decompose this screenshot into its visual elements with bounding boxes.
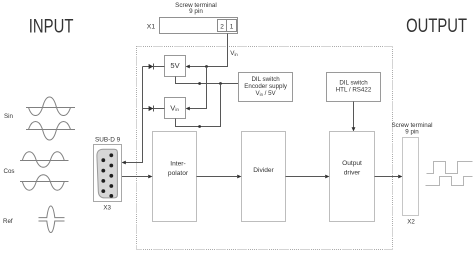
- DIL switch HTL/RS422 box: [327, 73, 381, 102]
- wire Vin output riser: [176, 84, 221, 127]
- svg-text:X2: X2: [407, 218, 415, 225]
- block Interpolator: [153, 132, 197, 222]
- svg-text:X1: X1: [147, 24, 156, 31]
- block Divider: [242, 132, 286, 222]
- svg-text:SUB-D 9: SUB-D 9: [95, 136, 121, 143]
- connector X3 SUB-D: [94, 145, 122, 202]
- arrow into Vin right: [186, 107, 190, 111]
- svg-text:Encoder supply: Encoder supply: [244, 83, 288, 90]
- svg-text:Cos: Cos: [4, 168, 15, 175]
- supply rail to SUB-D: [123, 67, 143, 163]
- wire X1 pin1 down: [187, 34, 228, 67]
- wire 5V output to DIL encoder: [176, 77, 239, 84]
- waveform sin-: [26, 129, 75, 131]
- svg-text:polator: polator: [168, 170, 189, 177]
- svg-text:Inter-: Inter-: [170, 161, 185, 168]
- waveform sin+: [26, 97, 75, 140]
- arrow into 5V right: [186, 65, 190, 69]
- arrow into SUB-D: [122, 161, 126, 165]
- arrow into Interpolator: [148, 175, 152, 179]
- wire down to Vin box: [187, 67, 207, 109]
- wire Divider to Output driver: [286, 176, 326, 178]
- wire DIL HTL to output driver: [353, 102, 355, 128]
- svg-text:HTL / RS422: HTL / RS422: [336, 86, 372, 93]
- svg-text:5V: 5V: [170, 61, 179, 70]
- waveform ref-: [39, 221, 65, 233]
- arrow into Output driver: [325, 175, 329, 179]
- connector X2: [403, 138, 419, 216]
- junction dot B: [198, 82, 201, 85]
- svg-text:Output: Output: [342, 160, 362, 167]
- waveform ref+: [39, 206, 65, 232]
- regulator 5V box: [165, 56, 186, 77]
- dashed main frame: [137, 47, 393, 250]
- svg-text:DIL switch: DIL switch: [251, 76, 280, 83]
- svg-text:DIL switch: DIL switch: [339, 79, 368, 86]
- svg-text:OUTPUT: OUTPUT: [406, 16, 467, 37]
- arrow into X2: [398, 175, 402, 179]
- svg-text:9 pin: 9 pin: [189, 8, 203, 15]
- output square wave B: [426, 177, 473, 186]
- waveform cos+: [20, 152, 68, 190]
- svg-text:Ref: Ref: [3, 218, 13, 225]
- output square wave A: [427, 162, 473, 174]
- svg-text:Vin: Vin: [230, 50, 238, 57]
- svg-text:Sin: Sin: [4, 113, 14, 120]
- waveform cos-: [20, 181, 68, 183]
- svg-text:driver: driver: [344, 170, 361, 177]
- DIL switch encoder supply box: [239, 73, 293, 102]
- diode D2: [149, 106, 154, 111]
- diode D1: [149, 64, 154, 69]
- svg-text:9 pin: 9 pin: [405, 128, 419, 135]
- junction dot A: [205, 65, 208, 68]
- connector X1: [160, 18, 238, 34]
- svg-text:2: 2: [220, 24, 224, 31]
- svg-text:X3: X3: [103, 205, 111, 212]
- block Output driver: [330, 132, 375, 222]
- arrow into Divider: [237, 175, 241, 179]
- junction dot C: [219, 82, 222, 85]
- svg-text:Divider: Divider: [253, 167, 274, 174]
- wire SUB-D to Interpolator: [122, 176, 149, 178]
- box Vin: [165, 98, 186, 119]
- arrow down into output driver: [352, 127, 356, 131]
- svg-text:1: 1: [230, 24, 234, 31]
- svg-text:INPUT: INPUT: [29, 16, 74, 37]
- junction dot D: [198, 125, 201, 128]
- wire 5V left with diode: [143, 66, 165, 68]
- wire Output driver to X2: [375, 176, 399, 178]
- wire Vin left with diode: [143, 108, 165, 110]
- wire Interpolator to Divider: [197, 176, 238, 178]
- svg-text:Vin / 5V: Vin / 5V: [256, 90, 277, 97]
